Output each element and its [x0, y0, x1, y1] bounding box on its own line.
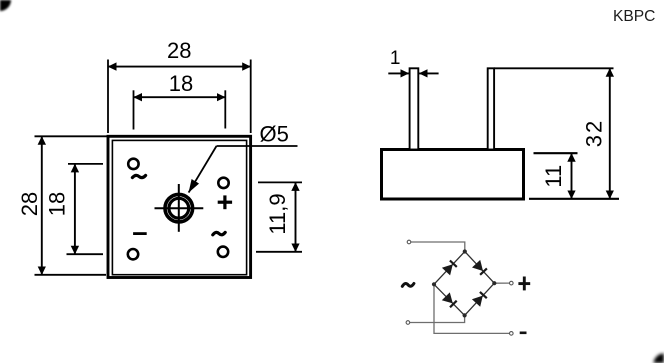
label ~ (AC) bottom-right pin: [213, 232, 225, 234]
terminal AC2: [406, 321, 410, 325]
dimension 18 left: extension lines: [68, 163, 103, 165]
svg-text:28: 28: [167, 38, 191, 63]
pin circle top-left: [128, 159, 138, 169]
svg-text:18: 18: [44, 192, 69, 216]
label ~ (AC input): [402, 284, 414, 287]
dimension 18 left: dimension line: [74, 164, 76, 254]
dimension 18 left: text: [44, 192, 69, 216]
terminal plus: [510, 281, 514, 285]
bridge edge left-top: [434, 252, 465, 285]
svg-text:32: 32: [582, 119, 607, 147]
svg-text:18: 18: [169, 71, 193, 96]
svg-text:1: 1: [390, 48, 401, 69]
wire plus: [494, 282, 509, 284]
bridge edge top-right: [465, 252, 495, 284]
scan artifact bottom-right corner: [654, 353, 664, 363]
svg-text:KBPC: KBPC: [613, 8, 655, 25]
diode D1 (left to top): [442, 261, 457, 276]
dimension 32: extension line top: [494, 67, 613, 69]
diode D2 (top to right): [472, 260, 487, 275]
node top: [463, 249, 467, 253]
package outline outer square: [108, 136, 251, 277]
leader line diameter 5: [217, 145, 298, 147]
mounting hole inner circle: [169, 198, 189, 218]
pin circle bottom-left: [128, 249, 138, 259]
scan artifact top-left corner: [0, 0, 11, 11]
svg-text:11: 11: [541, 165, 566, 188]
left lead pin: [410, 68, 419, 149]
dimension 11,9 right: text: [265, 193, 290, 234]
wire AC2 bottom: [410, 315, 465, 322]
right lead pin: [488, 68, 494, 149]
terminal minus: [510, 332, 514, 336]
diode D4 (bottom to right): [472, 292, 487, 307]
node right: [492, 281, 496, 285]
dimension 32: dimension line: [609, 68, 611, 199]
package outline inner square: [112, 140, 246, 274]
node bottom: [463, 313, 467, 317]
dimension 1: arrows: [388, 72, 409, 74]
bridge edge bottom-right: [465, 283, 495, 315]
dimension 28 top: extension lines: [107, 60, 109, 134]
bridge edge left-bottom: [434, 284, 465, 315]
mounting hole crosshair horizontal: [155, 207, 204, 209]
wire AC1 top: [411, 242, 465, 252]
label - (negative) bottom-left pin: [133, 232, 147, 235]
label + (DC positive): [518, 277, 530, 291]
dimension 32: extension line bottom: [529, 198, 619, 200]
dimension 11,9 right: dimension line: [295, 182, 297, 251]
dimension 32: text: [582, 119, 607, 147]
mounting hole crosshair vertical: [178, 184, 180, 232]
mounting hole outer circle: [165, 194, 193, 222]
svg-text:11,9: 11,9: [265, 193, 290, 234]
pin circle bottom-right: [218, 247, 228, 257]
body rectangle: [382, 150, 524, 200]
dimension 28 left: text: [17, 192, 42, 216]
dimension 11,9 right: extension lines: [258, 181, 302, 183]
label - (DC negative): [520, 332, 527, 335]
dimension 11: dimension line: [571, 153, 573, 199]
dimension 11: extension line top: [534, 152, 578, 154]
label + (positive) top-right pin: [218, 195, 232, 209]
wire minus: [434, 284, 509, 333]
svg-text:28: 28: [17, 192, 42, 216]
dimension 18 top: extension lines: [133, 90, 135, 129]
dimension 28 left: dimension line: [41, 136, 43, 274]
dimension 18 top: dimension line: [134, 96, 226, 98]
pin circle top-right: [218, 178, 228, 188]
node left: [432, 282, 436, 286]
dimension 11: text: [541, 165, 566, 188]
dimension 28 left: extension lines: [35, 135, 108, 137]
terminal AC1: [407, 240, 411, 244]
svg-text:Ø5: Ø5: [260, 122, 289, 147]
diode D3 (left to bottom): [442, 292, 457, 307]
label ~ (AC) top-left pin: [132, 175, 145, 177]
dimension 28 top: dimension line: [108, 66, 251, 68]
